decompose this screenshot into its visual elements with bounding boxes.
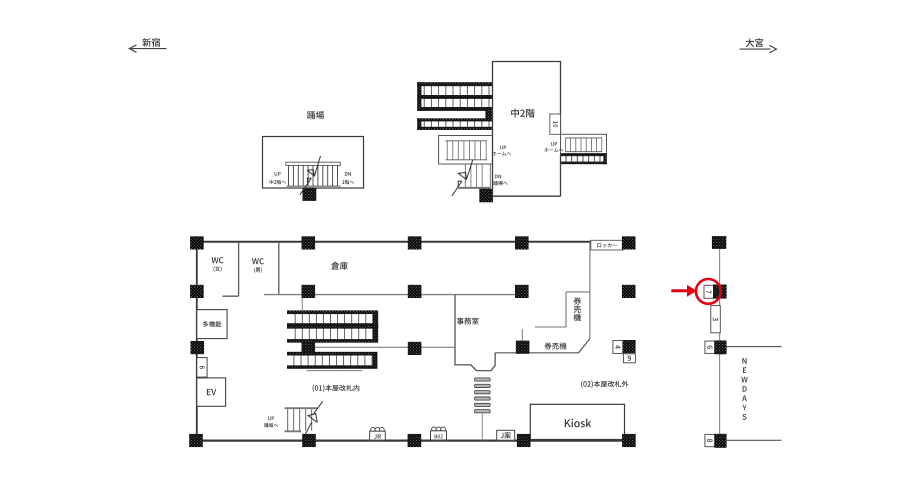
- mezz right lower stair: [561, 154, 607, 164]
- odoriba stair break line: [300, 178, 311, 195]
- ad box 6: [705, 341, 715, 353]
- odoriba UP label: [275, 172, 281, 176]
- odoriba hatched block: [303, 188, 316, 201]
- office walls: [455, 295, 495, 371]
- label inside gates: [313, 385, 360, 392]
- odoriba DN label: [345, 172, 351, 176]
- mezz locker box 10: [550, 114, 561, 134]
- wall left: [196, 241, 198, 441]
- columns (hatched): [190, 237, 203, 250]
- gate guide line: [481, 413, 483, 441]
- box 6 left: [197, 358, 207, 378]
- mezz down flight: [464, 164, 466, 188]
- mezz down flight hatched block: [480, 189, 493, 202]
- wall gate boundary: [589, 242, 591, 339]
- odoriba box: [263, 137, 364, 189]
- B02 machine: [432, 427, 437, 432]
- main upper double stair: [287, 311, 378, 343]
- mezz upper double stair: [418, 83, 493, 111]
- mezz stair break line: [452, 181, 462, 196]
- platform wall lower: [726, 439, 781, 441]
- NEWDAYS label: [742, 358, 746, 364]
- column stub c4r3: [521, 329, 523, 342]
- odoriba stair treads: [288, 165, 290, 186]
- odoriba label: [307, 111, 324, 119]
- label Omiya direction: [746, 38, 764, 47]
- wall WC partition 1: [238, 242, 240, 296]
- mezz single stair: [418, 119, 493, 130]
- platform wall upper: [726, 346, 781, 348]
- kiosk: [530, 404, 624, 439]
- ad box 4: [613, 340, 623, 353]
- EV room: [197, 378, 226, 406]
- mezz framed stair: [439, 136, 493, 165]
- wall top: [191, 241, 629, 243]
- wall bottom: [191, 440, 630, 442]
- odoriba stair bottom bar: [287, 185, 341, 187]
- mezz label UP home (left): [500, 146, 506, 150]
- bottom stairs: [285, 407, 318, 409]
- mezz stair connector block: [486, 109, 493, 120]
- souko warehouse label: [331, 262, 348, 270]
- wall mid row2: [315, 346, 455, 348]
- mezz label UP home (right): [551, 142, 557, 146]
- mezzanine room outline: [493, 62, 561, 197]
- wall middle long: [264, 294, 528, 296]
- ticket gates: [475, 378, 491, 381]
- platform column 2: [713, 285, 726, 299]
- wall WC partition 2: [278, 242, 280, 295]
- platform column 4: [715, 434, 727, 447]
- locker label box: [591, 240, 623, 250]
- red highlight arrow: [671, 289, 688, 292]
- main lower single stair: [287, 352, 377, 368]
- mezzanine label: [511, 109, 535, 118]
- ad box 8: [705, 434, 715, 446]
- ticket machine horizontal label: [545, 343, 567, 350]
- wall column stub c2: [301, 298, 303, 312]
- office label: [457, 318, 479, 325]
- platform wall line: [719, 249, 721, 435]
- ticket machine vertical label: [574, 297, 582, 304]
- label Shinjuku direction: [142, 38, 160, 47]
- JR machine: [371, 427, 376, 432]
- platform top column: [712, 236, 726, 248]
- ad box 7: [704, 285, 714, 298]
- platform column 3: [715, 341, 727, 354]
- multifunction toilet room: [197, 310, 227, 339]
- odoriba stair top bar: [286, 162, 341, 165]
- WC female label: [212, 257, 224, 263]
- ad box 3: [711, 306, 721, 333]
- mezz right upper stair: [561, 134, 607, 153]
- bottom stair label: [268, 417, 274, 421]
- label outside gates: [581, 381, 628, 388]
- wall ticket niche: [566, 291, 590, 293]
- main stair underline: [307, 370, 363, 372]
- WC male label: [252, 258, 264, 264]
- bottom stair break line: [305, 423, 312, 435]
- mezz label DN odoriba: [495, 175, 501, 179]
- red highlight circle: [696, 279, 721, 304]
- ad box 9: [623, 354, 635, 363]
- J-info box: [497, 430, 515, 440]
